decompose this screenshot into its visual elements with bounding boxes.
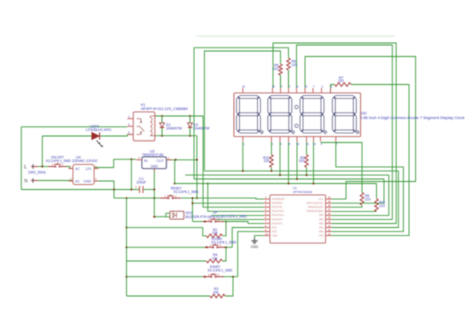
svg-text:PB2: PB2 [319, 222, 324, 225]
wire bus B4 [194, 179, 384, 203]
wire pin4 row [207, 183, 264, 212]
wire L feed [38, 166, 49, 168]
wire r4 to down2 [222, 247, 226, 261]
wire R7 row [331, 85, 410, 236]
wire T3 to R6 [194, 48, 289, 179]
switch ON-OFF [48, 163, 67, 168]
wire R8 feed [321, 143, 363, 193]
junction D1 bottom [161, 135, 163, 137]
svg-text:PD1/TXD: PD1/TXD [272, 206, 282, 209]
junction D2 top [189, 115, 191, 117]
mcu U1 ATTINY2313A [264, 195, 332, 243]
resistor R10 [263, 155, 273, 168]
switch DOWN label [212, 237, 237, 244]
wire up row left [193, 221, 205, 223]
switch RESET label [171, 187, 199, 194]
resistor R3 [210, 287, 225, 298]
junction down2 [225, 246, 227, 248]
wire onoff to U4 [67, 167, 74, 169]
svg-text:12V: 12V [85, 167, 92, 171]
resistor R11 [375, 199, 386, 212]
resistor R8 [360, 193, 370, 206]
svg-text:GND: GND [84, 179, 92, 183]
wire r3 row [127, 295, 211, 297]
svg-text:OUT: OUT [156, 159, 164, 163]
svg-text:PD6: PD6 [319, 234, 324, 237]
ground GND mcu [251, 238, 259, 250]
svg-text:1N4007W: 1N4007W [194, 127, 211, 131]
svg-text:K2-3.6*6.1_SMD: K2-3.6*6.1_SMD [222, 214, 247, 218]
buzzer SG1 [170, 211, 223, 219]
svg-text:N: N [24, 178, 28, 184]
switch START label [208, 265, 233, 272]
junction L-led [41, 166, 43, 168]
wire r1 to up2 [222, 222, 226, 236]
wire R8 bottom [332, 205, 363, 207]
wire led anode [42, 135, 91, 137]
svg-text:PD3/INT1: PD3/INT1 [272, 222, 283, 225]
junction v1-start [126, 276, 128, 278]
svg-text:PD4: PD4 [272, 226, 277, 229]
wire disp bottom pin drops [279, 142, 315, 185]
wire R10 drop [270, 167, 272, 172]
wire bus B5 vcc [175, 184, 377, 199]
capacitor C1 label [137, 177, 147, 184]
junction v1-up [126, 227, 128, 229]
wire led cathode to relay [100, 134, 133, 136]
svg-text:220uF: 220uF [137, 181, 147, 185]
regulator U2 label [142, 150, 163, 157]
resistor R1 [206, 228, 222, 238]
wire reset to mcu pin1 [181, 198, 264, 199]
svg-text:220: 220 [264, 159, 270, 163]
junction D2 bottom [189, 135, 191, 137]
wire start row to mcu pin9 [238, 232, 264, 277]
svg-text:PB4: PB4 [319, 214, 324, 217]
capacitor C1 [135, 186, 143, 194]
svg-text:GND: GND [272, 234, 278, 237]
module U4 label [72, 155, 98, 162]
wire mcu gnd [255, 236, 265, 238]
junction 12V-C1 [130, 158, 132, 160]
wire start row left [127, 276, 205, 278]
wire buzzer pins [166, 213, 170, 217]
junction railB-u2gnd [153, 197, 155, 199]
svg-text:220: 220 [273, 67, 279, 71]
junction down1 [206, 246, 208, 248]
junction v1-down [126, 246, 128, 248]
wire disp pin1 down [242, 142, 244, 172]
svg-text:PA1/XTAL2: PA1/XTAL2 [272, 210, 285, 213]
mcu U1 label [293, 186, 312, 194]
wire down row left [127, 246, 207, 248]
svg-text:220: 220 [292, 63, 298, 67]
net label 230V_50Hz [28, 170, 46, 174]
wire T5 vcc [305, 57, 416, 200]
led LED4 label [86, 125, 112, 132]
svg-text:L: L [24, 164, 27, 170]
wire led drop [41, 136, 43, 167]
wire pin2 row [193, 202, 265, 204]
svg-text:K2-3.6*6.1_SMD: K2-3.6*6.1_SMD [174, 190, 199, 194]
wire reset-up vertical [192, 198, 194, 221]
wire T2 seg a [273, 43, 396, 224]
display DS2 colon [295, 105, 298, 127]
resistor R9 [299, 155, 309, 168]
junction start1 [204, 276, 206, 278]
svg-text:220VAC-12VDC: 220VAC-12VDC [72, 159, 98, 163]
wire gnd rail A [21, 189, 154, 191]
wire R9 drop [306, 167, 308, 176]
junction u2out-b [196, 159, 198, 161]
display DS2 box [234, 93, 361, 137]
svg-text:K2-3.6*6.1_SMD: K2-3.6*6.1_SMD [46, 159, 71, 163]
wire T4b seg [297, 45, 393, 219]
wire down row to mcu pin8 [224, 228, 264, 248]
junction buzzer [153, 216, 155, 218]
svg-text:IN: IN [144, 159, 148, 163]
svg-text:230V_50Hz: 230V_50Hz [28, 170, 46, 174]
wire pin5 row [212, 214, 265, 216]
wire v1 gnd column [126, 198, 128, 296]
svg-text:220: 220 [379, 204, 385, 208]
wire mains loop left [21, 127, 127, 190]
svg-text:PD5: PD5 [272, 230, 277, 233]
junction railB-v1 [126, 197, 128, 199]
svg-text:GND: GND [251, 245, 259, 249]
diode D2 [188, 116, 210, 136]
wire R11 bottom [332, 210, 377, 212]
wire bus B3 [185, 175, 389, 215]
svg-text:HF3FF-M 012-1ZS_C966584: HF3FF-M 012-1ZS_C966584 [141, 107, 188, 111]
wire U2 out [166, 159, 197, 161]
wire faint top [196, 35, 395, 37]
wire R9 top [306, 142, 308, 155]
svg-text:PB7/UCSK/SCL: PB7/UCSK/SCL [306, 202, 324, 205]
regulator U2 [136, 156, 172, 171]
svg-text:AC: AC [75, 167, 80, 171]
svg-text:0.56 Inch 4 Digit Common Anode: 0.56 Inch 4 Digit Common Anode 7 Segment… [360, 115, 465, 120]
junction rstv [192, 197, 194, 199]
switch DOWN [205, 244, 226, 249]
switch UP label [213, 211, 247, 219]
junction U4gnd-railA [113, 189, 115, 191]
junction pin2row [192, 202, 194, 204]
svg-text:220: 220 [299, 159, 305, 163]
svg-text:PD0/RXD: PD0/RXD [272, 202, 283, 205]
wire U2 gnd down [153, 169, 155, 217]
wire U4 12V to U2 IN [94, 159, 136, 167]
wire relay coil rail top [155, 115, 197, 117]
svg-text:LTS05LVC-KPC: LTS05LVC-KPC [86, 128, 112, 132]
svg-text:PB6/MISO/DO: PB6/MISO/DO [308, 206, 324, 209]
wire pin6 row [216, 218, 265, 220]
junction up2 [225, 221, 227, 223]
terminal N [24, 178, 38, 184]
svg-text:K2-3.6*6.1_SMD: K2-3.6*6.1_SMD [208, 269, 233, 273]
terminal L [24, 164, 38, 170]
resistor R6 [287, 58, 298, 88]
wire r3 right [225, 277, 233, 296]
wire bus B2 [204, 171, 398, 228]
wire rail B reset row [114, 197, 160, 199]
svg-text:1N4007W: 1N4007W [166, 127, 183, 131]
svg-text:GND: GND [150, 164, 158, 168]
svg-text:UP: UP [213, 211, 218, 215]
led LED4 [92, 132, 103, 147]
svg-text:PA2/RESET: PA2/RESET [272, 198, 286, 201]
relay K1 [127, 112, 155, 141]
svg-text:220: 220 [338, 79, 344, 83]
svg-text:PD2/INT0: PD2/INT0 [272, 218, 283, 221]
wire relay coil rail bottom [155, 135, 197, 137]
wire vcc drop [174, 160, 176, 185]
wire T4 to R5 [204, 51, 280, 171]
display DS2 label [360, 112, 465, 121]
switch START [203, 273, 224, 278]
junction u2out-a [175, 159, 177, 161]
junction Drail-reset [196, 197, 198, 199]
wire R10 top [270, 142, 272, 155]
module U4 [69, 165, 99, 185]
switch RESET [160, 194, 182, 199]
switch ON-OFF label [46, 155, 71, 162]
switch UP [203, 218, 224, 223]
diode D1 [160, 116, 183, 136]
svg-text:PB3: PB3 [319, 218, 324, 221]
resistor R4 [206, 253, 222, 263]
svg-text:PB5/MOSI/SDA: PB5/MOSI/SDA [307, 210, 324, 213]
resistor R7 [335, 76, 351, 87]
svg-text:PA0/XTAL1: PA0/XTAL1 [272, 214, 285, 217]
svg-text:PB1: PB1 [319, 226, 324, 229]
svg-text:AC: AC [75, 179, 80, 183]
svg-text:+: + [135, 186, 137, 190]
relay K1 label [141, 103, 188, 111]
wire r1 feed [127, 228, 207, 236]
junction u2gnd-railA [153, 189, 155, 191]
wire buzzer feed [154, 216, 166, 218]
resistor R5 [273, 63, 283, 88]
junction up1 [204, 221, 206, 223]
svg-text:PB0: PB0 [319, 230, 324, 233]
junction C1-railA [130, 189, 132, 191]
display DS2 bottom pins [243, 137, 338, 147]
wire bus B1 right [332, 142, 404, 232]
wire C1 branch [130, 159, 132, 189]
wire r4 feed [127, 260, 207, 262]
wire start to vert [222, 276, 238, 278]
display DS2 top pins [242, 85, 332, 93]
wire D-rail down [196, 136, 198, 198]
svg-text:VCC: VCC [318, 198, 323, 201]
wire up row to mcu pin7 [222, 222, 264, 224]
junction D1 top [161, 115, 163, 117]
wire U4 gnd down [94, 181, 114, 198]
svg-text:220: 220 [365, 198, 371, 202]
junction start2 [232, 276, 234, 278]
display DS2 digits [237, 96, 360, 134]
wire N feed [38, 180, 73, 182]
svg-text:ATTINY2313A: ATTINY2313A [293, 190, 312, 194]
wire D-rail top to pin3 [197, 116, 264, 207]
